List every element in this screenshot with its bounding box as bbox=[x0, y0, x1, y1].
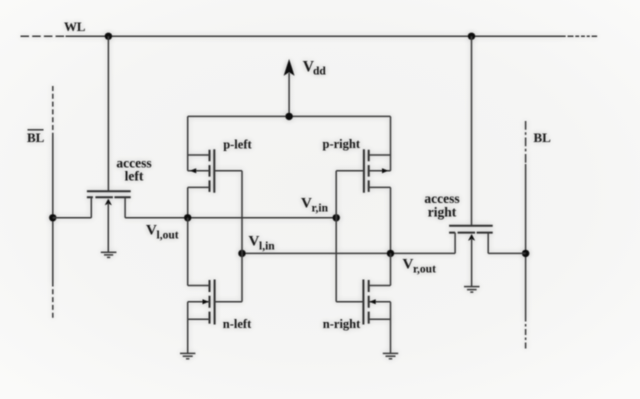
transistor n-left bbox=[188, 280, 215, 325]
svg-text:l,in: l,in bbox=[259, 241, 275, 253]
node Vr,in junction bbox=[333, 214, 340, 221]
wire BL-left vertical bbox=[52, 86, 54, 318]
svg-text:p-left: p-left bbox=[223, 138, 252, 152]
svg-text:V: V bbox=[146, 223, 157, 239]
wire left cross-couple gate line bbox=[241, 171, 243, 302]
wire access-left bulk to ground bbox=[107, 203, 109, 252]
wire n-right gate lead bbox=[336, 301, 363, 303]
ground n-left bbox=[180, 353, 195, 358]
wire access-right bulk to ground bbox=[471, 239, 473, 287]
svg-text:r,in: r,in bbox=[312, 203, 329, 215]
wire WL right dashed bbox=[561, 35, 599, 37]
wire access-left gate to WL bbox=[107, 36, 109, 191]
svg-text:right: right bbox=[428, 204, 457, 219]
wire node Vl,out horizontal (Vr,in line) bbox=[125, 217, 336, 219]
wire access-right node lead to BL bbox=[488, 252, 525, 254]
ground access-left bbox=[101, 252, 117, 257]
wire WL left dashed bbox=[21, 35, 66, 37]
node Vl,out junction bbox=[184, 214, 191, 221]
label Vr,out bbox=[403, 257, 437, 276]
svg-text:WL: WL bbox=[64, 19, 86, 34]
wire access-left node lead to BL bbox=[53, 217, 92, 219]
wire p-right source/bulk from rail bbox=[390, 116, 392, 170]
wire p-right gate lead bbox=[336, 170, 364, 172]
power Vdd arrow bbox=[284, 59, 295, 116]
svg-text:dd: dd bbox=[313, 66, 326, 78]
node WL-access-left junction bbox=[105, 33, 112, 40]
ground access-right bbox=[464, 287, 480, 293]
svg-text:n-right: n-right bbox=[323, 317, 361, 331]
transistor p-left bbox=[188, 149, 215, 192]
node BL-right junction bbox=[522, 250, 529, 257]
transistor access-right bbox=[449, 226, 493, 254]
label access right bbox=[424, 191, 459, 219]
wire p-left source/bulk from rail bbox=[187, 116, 189, 170]
wire n-right drain to node bbox=[390, 253, 392, 285]
wire n-right source to ground bbox=[390, 302, 392, 354]
wire right cross-couple gate line bbox=[335, 171, 337, 302]
wire p-left gate lead bbox=[214, 170, 242, 172]
svg-text:r,out: r,out bbox=[413, 264, 436, 276]
node BL-left junction bbox=[49, 214, 56, 221]
label Vl,in bbox=[249, 234, 276, 253]
svg-text:BL: BL bbox=[534, 130, 552, 145]
wire Vdd rail bbox=[188, 115, 391, 117]
wire p-left drain to node bbox=[187, 187, 189, 217]
wire n-left gate lead bbox=[215, 301, 242, 303]
svg-text:V: V bbox=[403, 257, 414, 273]
node Vr,out junction bbox=[387, 250, 394, 257]
wire n-left source to ground bbox=[187, 302, 189, 354]
node Vdd junction bbox=[285, 113, 292, 120]
wire access-right gate to WL bbox=[471, 36, 473, 225]
label Vl,out bbox=[146, 223, 179, 242]
label access left bbox=[116, 156, 151, 184]
wire BL-right vertical bbox=[525, 121, 527, 351]
ground n-right bbox=[383, 353, 398, 358]
svg-text:BL: BL bbox=[27, 130, 45, 145]
node WL-access-right junction bbox=[468, 33, 475, 40]
transistor access-left bbox=[87, 191, 131, 218]
svg-text:l,out: l,out bbox=[157, 230, 179, 242]
node Vl,in junction bbox=[238, 250, 245, 257]
wire p-right drain to node bbox=[390, 187, 392, 253]
transistor p-right bbox=[364, 149, 391, 192]
label Vdd bbox=[303, 59, 327, 78]
svg-text:n-left: n-left bbox=[223, 317, 252, 331]
wire node Vl,in horizontal (Vr,out line) bbox=[242, 252, 455, 254]
svg-text:left: left bbox=[125, 169, 144, 184]
wire WL main bbox=[66, 35, 562, 37]
label Vr,in bbox=[301, 196, 329, 215]
label BLbar bbox=[27, 130, 45, 145]
svg-text:V: V bbox=[249, 234, 260, 250]
svg-text:V: V bbox=[301, 196, 312, 212]
svg-text:p-right: p-right bbox=[323, 137, 361, 151]
transistor n-right bbox=[363, 280, 390, 325]
wire n-left drain to node bbox=[187, 218, 189, 286]
